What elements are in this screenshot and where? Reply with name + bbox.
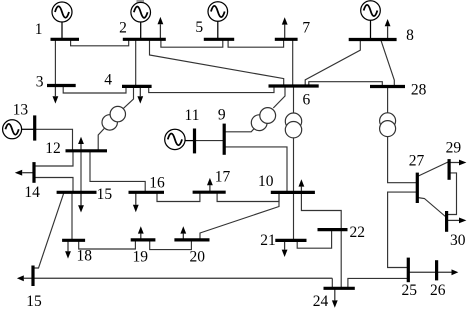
label bus 10 at (265.7,181.4) <box>258 173 274 190</box>
label bus 9 at (221.8,115.2) <box>218 107 226 124</box>
wire 22-24 <box>340 230 342 289</box>
load arrow bus 24 (down) <box>332 288 338 308</box>
wire 6-10 through transformer T6-10 <box>293 86 295 192</box>
wire 12-16 <box>90 151 145 193</box>
svg-text:21: 21 <box>260 232 276 249</box>
svg-text:18: 18 <box>77 248 93 265</box>
generator at bus 11 <box>165 129 195 149</box>
bus 29 <box>448 159 451 180</box>
wire 2-4 <box>135 39 137 86</box>
bus 22 <box>318 228 348 231</box>
bus 26 <box>435 260 438 280</box>
svg-text:6: 6 <box>303 91 311 108</box>
bus 5 <box>204 38 234 41</box>
svg-text:27: 27 <box>409 153 425 170</box>
load arrow bus 14 (left) <box>15 170 34 176</box>
bus 14 <box>32 162 35 183</box>
load arrow bus 18 (down) <box>65 240 71 258</box>
svg-text:2: 2 <box>119 20 127 37</box>
grey mark above generator 2 <box>137 0 145 3</box>
wire 9-10 <box>224 147 287 193</box>
load arrow bus 21 (down) <box>282 240 288 257</box>
wire 15-18 <box>71 192 73 240</box>
label bus 27 at (416.5,161.0) <box>409 153 425 170</box>
bus 27 <box>416 173 419 203</box>
label bus 1 at (38.6,29.3) <box>35 21 43 38</box>
label bus 17 at (222.5,177.2) <box>215 169 231 186</box>
bus 12 <box>66 149 108 152</box>
wire 27-29 <box>417 162 449 177</box>
svg-text:13: 13 <box>13 101 29 118</box>
svg-text:3: 3 <box>36 74 44 91</box>
bus 30 <box>445 211 448 232</box>
bus 13 <box>33 115 36 140</box>
wire 14-15 <box>34 178 73 193</box>
bus 4 <box>122 85 152 88</box>
wire 2-5 <box>161 39 223 47</box>
bus 19 <box>131 238 156 241</box>
bus 7 <box>275 38 298 41</box>
wire 21-22 <box>297 230 331 249</box>
bus 28 <box>370 85 405 88</box>
wire 9-11 <box>195 140 225 142</box>
label bus 20 at (197.2,257.2) <box>189 249 205 266</box>
load arrow bus 4 (down) <box>137 86 143 103</box>
svg-text:11: 11 <box>185 107 200 124</box>
transformer T28-27 <box>380 113 396 137</box>
label bus 15 at (34,301.5) <box>26 293 42 310</box>
wire 10-21 <box>293 192 295 240</box>
bus 21 <box>275 239 306 242</box>
transformer T4-12 <box>102 106 126 130</box>
wire 6-7 <box>292 39 294 86</box>
transformer T6-9 <box>251 108 275 131</box>
label bus 3 at (39.6,82.1) <box>36 74 44 91</box>
label bus 19 at (140.2,257.2) <box>132 249 148 266</box>
svg-text:12: 12 <box>45 140 61 157</box>
svg-text:29: 29 <box>446 139 462 156</box>
wire 1-3 <box>54 39 56 85</box>
wire 27-30 <box>417 198 446 218</box>
label bus 7 at (306.2,28.2) <box>302 20 310 37</box>
load arrow bus 29 (right) <box>449 160 466 166</box>
label bus 30 at (457.7,240.5) <box>450 232 466 249</box>
load arrow bus 10 (up) <box>299 179 305 192</box>
svg-text:28: 28 <box>411 82 427 99</box>
transformer T6-10 <box>285 113 301 138</box>
generator at bus 5 <box>208 2 228 40</box>
bus 3 <box>47 84 76 87</box>
svg-text:9: 9 <box>218 107 226 124</box>
svg-text:22: 22 <box>349 224 365 241</box>
label bus 11 at (192,115.7) <box>185 107 200 124</box>
wire 25-26 with load arrow bus 26 <box>408 269 458 275</box>
svg-text:5: 5 <box>195 19 203 36</box>
load arrow bus 3 (down) <box>53 86 59 104</box>
wire transformer T6-9 to bus 6 <box>273 86 285 108</box>
wire 8-28 <box>381 40 395 87</box>
load arrow bus 8 (up) <box>385 19 391 40</box>
svg-text:10: 10 <box>258 173 274 190</box>
bus 24 <box>324 287 355 290</box>
bus 11 <box>193 129 196 154</box>
load arrow bus 7 (up) <box>282 17 288 39</box>
wire 10-20 <box>200 192 279 240</box>
label bus 15 at (104.4,194.5) <box>97 186 113 203</box>
bus 15 <box>57 191 97 194</box>
label bus 8 at (410,35.6) <box>406 27 414 44</box>
bus 9 <box>223 124 226 155</box>
wire 16-17 <box>157 192 200 201</box>
wire 28 to transformer T28-27 <box>387 87 389 114</box>
load arrow bus 17 (up) <box>207 178 213 192</box>
bus 17 <box>193 191 226 194</box>
svg-text:15: 15 <box>26 293 42 310</box>
svg-text:7: 7 <box>302 20 310 37</box>
wire 24-25 <box>348 278 408 288</box>
wire 18-19 <box>79 240 136 249</box>
wire 6-28 <box>309 82 383 87</box>
svg-text:8: 8 <box>406 27 414 44</box>
generator at bus 1 <box>52 2 72 39</box>
label bus 12 at (53,148.4) <box>45 140 61 157</box>
label bus 13 at (20.4,109.8) <box>13 101 29 118</box>
bus 25 <box>407 258 410 283</box>
label bus 5 at (199.3,27.6) <box>195 19 203 36</box>
load arrow bus 19 (up) <box>138 226 144 240</box>
label bus 26 at (437.7,290.5) <box>430 282 446 299</box>
bus 2 <box>123 38 166 41</box>
label bus 28 at (418.6,90) <box>411 82 427 99</box>
svg-text:26: 26 <box>430 282 446 299</box>
svg-text:1: 1 <box>35 21 43 38</box>
wire 5-7 <box>228 39 284 47</box>
wire 1-2 <box>71 39 129 46</box>
svg-text:16: 16 <box>149 175 165 192</box>
wire 4 to transformer T4-12 <box>124 86 134 108</box>
label bus 24 at (320.5,301.5) <box>313 293 329 310</box>
label bus 16 at (157,183) <box>149 175 165 192</box>
load arrow bus 30 (right) <box>447 218 467 224</box>
label bus 25 at (409.3,290.5) <box>402 282 418 299</box>
label bus 22 at (357.2,232.7) <box>349 224 365 241</box>
generator at bus 8 <box>361 1 381 40</box>
bus 20 <box>174 238 209 241</box>
wire 27-25 <box>388 192 418 267</box>
bus 23 (labelled 15) <box>31 266 34 287</box>
wire transformer T4-12 to bus 12 <box>98 129 104 151</box>
svg-text:20: 20 <box>189 249 205 266</box>
wire 19-20 <box>150 240 192 250</box>
svg-text:4: 4 <box>104 71 112 88</box>
wire 3-4 <box>63 86 126 94</box>
label bus 2 at (123,28.1) <box>119 20 127 37</box>
bus 10 <box>271 191 315 194</box>
wire transformer T28-27 to bus 27 <box>388 136 418 183</box>
bus 8 <box>349 38 397 41</box>
svg-text:17: 17 <box>215 169 231 186</box>
bus 6 <box>269 84 319 87</box>
wire 15-23 <box>33 192 64 268</box>
wire 23-24 with load arrow bus 23 <box>17 275 332 288</box>
wire 17-10 <box>217 192 279 201</box>
svg-text:14: 14 <box>24 184 40 201</box>
label bus 4 at (108.1,79.9) <box>104 71 112 88</box>
svg-text:15: 15 <box>97 186 113 203</box>
load arrow bus 16 (down) <box>133 192 139 212</box>
label bus 6 at (306.4,99.8) <box>303 91 311 108</box>
svg-text:25: 25 <box>402 282 418 299</box>
load arrow bus 20 (up) <box>180 226 186 240</box>
wire 12-15 with load arrows (up bus 12, down bus 15) <box>78 137 84 213</box>
svg-text:19: 19 <box>132 249 148 266</box>
bus 1 <box>51 38 80 41</box>
bus 18 <box>62 239 85 242</box>
wire 12-13 <box>35 129 73 151</box>
wire 9 to transformer T6-9 <box>224 129 254 132</box>
wire 2-6 <box>150 39 284 86</box>
wire 4-6 <box>149 86 274 93</box>
label bus 21 at (268,240.6) <box>260 232 276 249</box>
wire 29-30 <box>447 173 457 215</box>
label bus 29 at (453.4,147.8) <box>446 139 462 156</box>
load arrow bus 2 (up) <box>158 17 164 39</box>
bus 16 <box>129 191 165 194</box>
generator at bus 13 <box>3 120 35 139</box>
generator at bus 2 <box>131 2 151 39</box>
wire 12-14 <box>34 151 73 166</box>
wire 10-22 <box>301 192 341 229</box>
label bus 18 at (84.3,256.2) <box>77 248 93 265</box>
svg-text:30: 30 <box>450 232 466 249</box>
svg-text:24: 24 <box>313 293 329 310</box>
wire 6-8 <box>305 40 360 87</box>
label bus 14 at (32.1,192.3) <box>24 184 40 201</box>
